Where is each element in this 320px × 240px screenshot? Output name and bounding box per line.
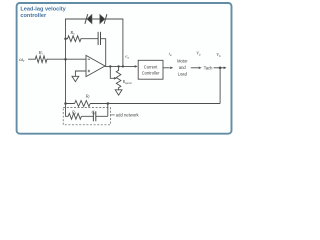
svg-text:Rp: Rp xyxy=(71,109,77,115)
title caption xyxy=(20,6,66,19)
resistor Rf xyxy=(75,101,91,107)
wire Rs to Cs xyxy=(81,38,98,40)
potentiometer Rspeed xyxy=(118,66,120,70)
svg-text:Load: Load xyxy=(178,72,188,77)
svg-text:Cp: Cp xyxy=(92,109,97,115)
resistor Rs xyxy=(68,36,82,42)
op-amp plus sign xyxy=(88,70,90,72)
svg-text:Tach: Tach xyxy=(204,66,213,71)
resistor Ri xyxy=(35,56,47,63)
svg-text:controller: controller xyxy=(20,13,47,19)
add network dashed box xyxy=(63,108,110,125)
wire zener clamp branch xyxy=(66,18,123,20)
wire RC feedback branch left xyxy=(66,38,68,40)
wire Ri to inverting node xyxy=(47,58,86,60)
wiper arrowhead xyxy=(114,77,117,80)
node feedback tap dot xyxy=(122,65,124,67)
svg-text:add network: add network xyxy=(116,113,140,118)
node tach feedback dot xyxy=(219,66,222,69)
svg-text:Lead-lag velocity: Lead-lag velocity xyxy=(20,6,66,12)
arrowhead at tach xyxy=(199,67,202,70)
capacitor Cs xyxy=(98,32,100,44)
zener diode D2 xyxy=(100,14,107,24)
op-amp U1 xyxy=(86,55,105,76)
block motor and load xyxy=(177,59,188,77)
node Rf right dot xyxy=(107,102,110,105)
wire current controller to motor xyxy=(163,67,170,69)
op-amp minus sign xyxy=(88,58,90,60)
wire feedback vertical xyxy=(219,68,221,104)
wire input xyxy=(29,58,36,60)
node wiper tap dot xyxy=(109,65,111,67)
output arrowhead Vb xyxy=(224,67,227,70)
svg-text:Current: Current xyxy=(144,64,159,69)
node RC branch junction xyxy=(64,37,67,40)
svg-text:and: and xyxy=(179,65,187,70)
svg-text:Motor: Motor xyxy=(177,59,188,64)
ground op-amp xyxy=(72,76,79,81)
wire down to add network xyxy=(107,104,109,117)
zener diode D1 xyxy=(85,14,92,24)
svg-text:Ri: Ri xyxy=(38,50,43,56)
capacitor Cp xyxy=(93,111,95,121)
arrowhead at motor xyxy=(170,67,173,70)
wire zener branch down to output xyxy=(122,19,124,66)
wire motor to tach xyxy=(191,67,199,69)
label add network leader xyxy=(110,114,114,116)
node pot top dot xyxy=(117,65,119,67)
node Rf left dot xyxy=(64,102,67,105)
svg-text:Rs: Rs xyxy=(69,30,75,36)
wire op-amp + input xyxy=(75,71,86,76)
resistor Rp xyxy=(68,113,81,119)
wire tach output xyxy=(214,67,225,69)
ground potentiometer xyxy=(115,90,122,95)
arrowhead into current controller xyxy=(135,65,138,68)
wire Cs to op-amp output xyxy=(101,39,106,67)
wire op-amp output xyxy=(105,65,136,67)
wire wiper tap xyxy=(110,66,114,78)
wire inverting node vertical bus xyxy=(65,19,67,116)
wire add network branch xyxy=(66,115,108,117)
wire feedback horizontal xyxy=(66,103,221,105)
block current controller xyxy=(138,60,163,79)
node A junction (inverting input) xyxy=(64,58,67,61)
svg-text:Controller: Controller xyxy=(142,71,160,76)
